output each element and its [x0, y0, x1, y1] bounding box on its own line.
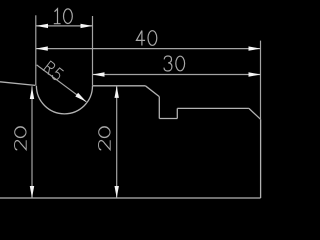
part profile: top face — [93, 85, 146, 87]
part profile: notch left edge — [158, 97, 160, 119]
dimension line 40 — [36, 48, 261, 50]
leader line R5 — [37, 65, 87, 102]
part profile: right edge — [260, 119, 262, 198]
part profile: left top face — [0, 82, 35, 86]
dimension line 30 — [93, 74, 261, 76]
part profile: chamfer into notch — [145, 86, 159, 97]
dim text 20 right (rotated) — [99, 127, 111, 150]
dimension line 20 left — [31, 86, 33, 198]
dim text 10 — [54, 9, 73, 24]
extension line right (x=260.5) — [260, 41, 262, 119]
arrowhead 10 right — [81, 24, 93, 28]
dim text R5 (rotated along leader) — [43, 61, 64, 81]
extension line left (x=35.8) — [35, 15, 37, 85]
arrowhead 40 left — [36, 46, 48, 50]
part profile: right chamfer — [249, 108, 261, 119]
dimension line 10 — [36, 25, 93, 27]
arrowhead 30 right — [249, 72, 261, 76]
arrowhead 20 right top — [115, 86, 119, 98]
part profile: notch bottom — [159, 118, 177, 120]
dim text 40 — [136, 31, 156, 46]
arrowhead R5 — [75, 93, 86, 102]
part profile: bottom face — [0, 197, 261, 199]
part profile: upper right face — [177, 107, 249, 109]
arrowhead 20 left bottom — [30, 186, 34, 198]
part profile: R5 semicircular groove arc — [36, 86, 92, 114]
extension line mid (x=92.5) — [92, 16, 94, 86]
dimension line 20 right — [116, 86, 118, 198]
dim text 20 left (rotated) — [15, 127, 27, 150]
dim text 30 — [164, 56, 185, 71]
arrowhead 10 left — [36, 24, 48, 28]
arrowhead 20 right bottom — [115, 186, 119, 198]
arrowhead 40 right — [249, 46, 261, 50]
arrowhead 20 left top — [30, 87, 34, 99]
part profile: notch right edge — [176, 108, 178, 118]
arrowhead 30 left — [93, 72, 105, 76]
